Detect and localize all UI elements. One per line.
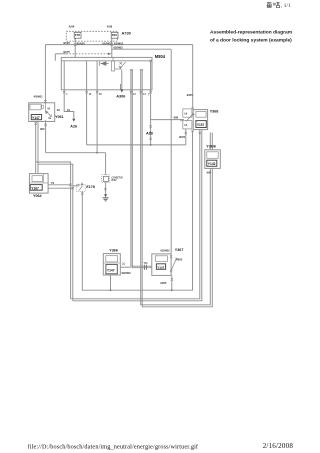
arrowhead into F60 drop [108, 53, 111, 56]
junction H1 x150.6 [150, 144, 152, 146]
Y147 inner rect [30, 104, 41, 110]
ground symbol [103, 198, 109, 201]
svg-text:4/0M01: 4/0M01 [34, 94, 44, 98]
svg-text:Y157: Y157 [197, 123, 205, 127]
wire pair Y147 to Y064 [36, 122, 38, 173]
wire pair branch to risers [36, 162, 73, 301]
svg-text:F78: F78 [75, 33, 81, 37]
wire Y367 bottom pin [171, 275, 173, 290]
svg-text:T2: T2 [51, 181, 55, 185]
wire pair1 from M804 to Y366/Y367 junction [131, 70, 152, 267]
wire H2 riser from Y147 pin [45, 120, 47, 153]
svg-text:Y147: Y147 [32, 116, 40, 120]
svg-text:9005: 9005 [187, 93, 194, 97]
pin tick on ground wire [104, 188, 106, 190]
connector inner rect [103, 176, 108, 181]
control unit M804 [61, 57, 152, 89]
svg-text:Y167: Y167 [31, 186, 39, 190]
svg-text:A28: A28 [146, 132, 153, 136]
svg-text:905: 905 [207, 170, 212, 174]
svg-text:2/16/2008: 2/16/2008 [263, 442, 294, 450]
svg-text:13: 13 [143, 93, 146, 96]
pin x150.6 lower [149, 138, 151, 140]
actuator Y147 [31, 115, 41, 120]
junctions on risers [69, 184, 74, 190]
svg-text:Y147: Y147 [107, 268, 115, 272]
wire pair Y368 to Y36/6 [210, 133, 212, 150]
wire v x97.1 M804 to H2 [96, 61, 98, 153]
svg-text:4/025: 4/025 [63, 41, 70, 45]
arrow A28 [149, 131, 151, 133]
svg-text:A306: A306 [116, 94, 125, 98]
fuse F78 [74, 32, 81, 41]
junction F78xKl30 [74, 43, 77, 46]
wire H2 [46, 152, 106, 154]
svg-text:91: 91 [67, 108, 71, 112]
svg-text:, 1/1: , 1/1 [281, 3, 291, 9]
relay contact arm inside M804 [115, 62, 126, 71]
svg-text:686: 686 [174, 116, 179, 120]
lock unit Y36/6 [205, 150, 221, 169]
svg-text:Y366: Y366 [109, 249, 118, 253]
svg-text:15: 15 [89, 93, 92, 96]
interior lock unit box (Y147 assembly) [29, 103, 55, 122]
svg-text:Y36/6: Y36/6 [206, 145, 216, 149]
wire Y366 bottom pin to loop [110, 275, 112, 290]
junction H2 x97 [96, 152, 98, 154]
door contact switch unit Y368 left boxes [180, 109, 194, 129]
connector unit (dashed) at ground column [102, 175, 110, 183]
svg-text:12: 12 [133, 93, 136, 96]
Y147 small sub-box [42, 105, 44, 108]
svg-text:Y368: Y368 [210, 110, 219, 114]
lock unit Y366 [103, 254, 120, 275]
arrow to A26 [72, 119, 75, 122]
svg-text:62/M02: 62/M02 [114, 46, 124, 50]
wire left riser to Y147 [44, 45, 46, 103]
header page-number text [267, 2, 291, 9]
switch Y061 inside box [45, 103, 52, 120]
Y368 inner rect [196, 111, 206, 117]
wire F78 drop [74, 39, 76, 57]
svg-text:80A80: 80A80 [77, 41, 86, 45]
Y064 inner rect [32, 176, 43, 182]
actuator Y366 inner [106, 264, 117, 273]
Y064 divider line [29, 174, 48, 183]
pin x185.8 [185, 132, 187, 134]
svg-text:30: 30 [99, 93, 102, 96]
wire pair Y064 to risers [48, 185, 73, 188]
svg-text:Y142: Y142 [208, 162, 216, 166]
svg-text:B/02: B/02 [112, 179, 118, 182]
wire right riser A [192, 45, 194, 109]
actuator Y142 [207, 160, 217, 166]
svg-text:90: 90 [57, 108, 61, 112]
wire ground-unit drop [105, 153, 107, 175]
wire H1 [87, 144, 186, 146]
svg-text:A26: A26 [70, 125, 77, 129]
svg-text:62/M02: 62/M02 [122, 271, 132, 275]
relay box A730 (dashed) [66, 31, 117, 41]
svg-text:905: 905 [40, 127, 45, 131]
Y366 inner rect [106, 256, 118, 262]
svg-text:4/98: 4/98 [107, 25, 113, 29]
svg-text:62/M02: 62/M02 [114, 41, 124, 45]
pin x150.6 mid [149, 125, 151, 127]
pins under Y147 [35, 122, 47, 126]
junction x192.7 top of Y368 [191, 107, 194, 110]
Y366 right pins [122, 263, 124, 265]
wire riser to E178 [73, 185, 79, 187]
svg-text:Y367: Y367 [175, 248, 184, 252]
arrow down to ground [104, 194, 107, 197]
switch E178 dashed enclosure [76, 185, 85, 192]
wire to Y368 [151, 119, 184, 121]
svg-text:Y061: Y061 [55, 115, 64, 119]
wire M804 drop x150.6 [150, 61, 152, 145]
actuator Y157b [156, 264, 165, 270]
wire below connector [105, 182, 107, 194]
svg-text:90: 90 [47, 107, 50, 110]
actuator Y157 [196, 121, 206, 128]
svg-text:9005: 9005 [179, 135, 186, 139]
svg-text:A/98: A/98 [69, 25, 75, 29]
wire Y366 right to junction [120, 266, 131, 268]
wire Y368 left pin to H1 [185, 129, 187, 145]
junction Y147 top [44, 100, 47, 103]
svg-text:Y157: Y157 [157, 265, 165, 269]
wire short riser at x55 [54, 54, 56, 61]
Y368 main box [193, 110, 207, 130]
svg-text:7: 7 [148, 93, 150, 96]
wire right riser B [170, 49, 172, 254]
door lock unit box Y064 [29, 174, 48, 194]
junction Y366 on loop [110, 289, 112, 291]
relay coil inside M804 [100, 57, 115, 71]
wire A306 drop second conductor [120, 84, 122, 90]
wire v x64 M804 pin to corner [64, 61, 74, 119]
svg-text:905: 905 [178, 257, 183, 261]
svg-text:Assembled-representation diagr: Assembled-representation diagram [210, 29, 293, 35]
svg-text:9005: 9005 [160, 281, 167, 285]
svg-text:4/075: 4/075 [63, 50, 70, 54]
svg-text:file://D:/bosch/bosch/daten/im: file://D:/bosch/bosch/daten/img_neutral/… [28, 444, 199, 451]
svg-text:9a: 9a [48, 117, 51, 120]
svg-text:A730: A730 [122, 30, 131, 35]
pins under Y368 right box [199, 132, 201, 134]
pin junctions under M804 [63, 91, 152, 93]
svg-text:M804: M804 [155, 54, 166, 59]
wire F60 drop [111, 38, 113, 57]
actuator Y167 [30, 185, 42, 191]
pin below E178 [81, 192, 83, 194]
pin labels under M804 [66, 93, 150, 97]
junction Y367 on loop [171, 289, 173, 291]
pin on single loop right [191, 130, 193, 132]
wire single loop [82, 131, 192, 290]
svg-text:T16: T16 [144, 263, 149, 265]
arrow to A306 [120, 89, 123, 92]
svg-text:of a door locking system (exam: of a door locking system (example) [210, 38, 292, 44]
switch on Y367 right edge [170, 255, 178, 272]
svg-text:62/M02: 62/M02 [161, 249, 171, 253]
pin x171.8 [171, 278, 173, 280]
Y36/6 inner rect [207, 152, 218, 159]
wire kl.30 horizontal [45, 44, 192, 46]
M804 inner bus line [61, 60, 152, 62]
svg-text:1: 1 [66, 93, 68, 96]
pin ticks at inner wire tops [130, 69, 143, 71]
plug connector to Y367 [145, 265, 147, 270]
svg-text:F60: F60 [112, 33, 118, 37]
svg-text:Y064: Y064 [33, 194, 43, 198]
wire kl.15 to right column [112, 48, 171, 50]
switch E178 [77, 183, 83, 191]
wire dashed signal [55, 53, 66, 55]
wire pair A loop right side [71, 130, 200, 299]
lock unit Y367 [152, 254, 171, 276]
wire pair B from M804 [141, 70, 211, 305]
svg-text:E178: E178 [86, 185, 94, 189]
wire v x86.6 M804 to H1 [86, 61, 88, 145]
wire M804 internal drop A306 [121, 71, 123, 92]
fuse F60 [111, 32, 118, 38]
junction F60xKl30 [111, 43, 114, 46]
Y367 inner rect [155, 256, 167, 261]
Y366 divider line [103, 262, 120, 264]
